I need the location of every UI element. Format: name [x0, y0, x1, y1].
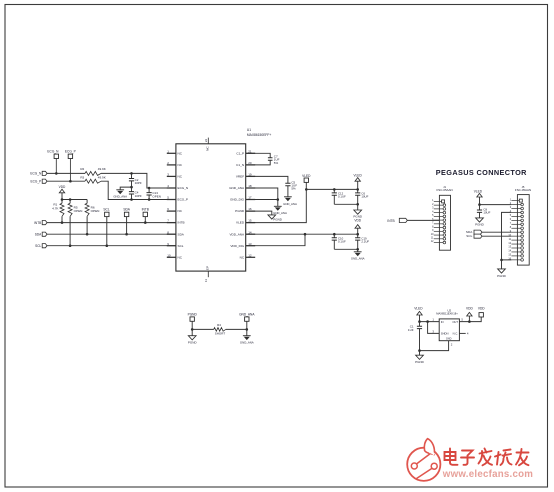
svg-text:PGND: PGND — [235, 209, 245, 213]
svg-text:GND_ANA: GND_ANA — [240, 340, 254, 344]
resistor R2 49.9K — [80, 167, 106, 175]
wire INTB — [47, 222, 176, 224]
node SCL test point — [103, 208, 109, 247]
title PEGASUS CONNECTOR — [436, 168, 527, 177]
svg-text:ECG_N: ECG_N — [30, 172, 42, 176]
svg-text:GND_ANA: GND_ANA — [113, 195, 127, 199]
node VDD test point — [478, 306, 485, 317]
svg-text:10UF: 10UF — [483, 210, 490, 214]
svg-text:VDD: VDD — [354, 219, 361, 223]
port INTB to J1 — [387, 218, 407, 223]
node GND_ANA test point — [239, 312, 255, 330]
svg-text:VLED: VLED — [474, 189, 483, 193]
svg-text:MAX8511EXK18+: MAX8511EXK18+ — [436, 312, 458, 316]
node ECG_P test point — [65, 150, 76, 183]
svg-text:PGND: PGND — [475, 222, 485, 226]
svg-text:INTB: INTB — [34, 221, 41, 225]
wire GND_ANA pin 18 to GND_DIG pin 17 — [246, 188, 279, 201]
wire U2 GND pin 2 — [418, 341, 453, 352]
svg-text:4.7K: 4.7K — [52, 207, 59, 211]
power VDD arrow at U2 — [466, 306, 473, 321]
wire ECG_P — [47, 180, 85, 182]
svg-text:VDD: VDD — [466, 306, 473, 310]
wire SDA — [47, 233, 176, 235]
svg-text:GND_ANA: GND_ANA — [351, 257, 365, 261]
svg-text:SCL: SCL — [466, 234, 472, 238]
svg-text:GND_ANA: GND_ANA — [273, 211, 287, 215]
svg-text:NC: NC — [178, 209, 183, 213]
port ECG_N — [30, 171, 47, 175]
resistor R3 49.9K — [80, 175, 106, 183]
svg-text:R3: R3 — [80, 175, 84, 179]
svg-text:10PF: 10PF — [135, 194, 142, 198]
connector J5 FSC-05AAN — [508, 185, 531, 265]
wire VLED pin 15 — [246, 182, 308, 222]
svg-text:49.9K: 49.9K — [98, 167, 107, 171]
wire VLED to U2 IN pin 1 — [420, 318, 440, 323]
svg-text:NC: NC — [205, 146, 209, 151]
svg-text:SCL: SCL — [103, 208, 109, 212]
svg-text:OUT: OUT — [452, 320, 458, 324]
svg-text:5%: 5% — [291, 187, 296, 191]
node ECG_N test point — [47, 150, 59, 175]
node PGND test point — [188, 312, 198, 330]
svg-text:INTB: INTB — [178, 221, 185, 225]
ground PGND at tie — [188, 329, 198, 344]
svg-text:OPEN: OPEN — [74, 209, 83, 213]
svg-text:SDA: SDA — [35, 232, 42, 236]
svg-text:FSC-05AAN: FSC-05AAN — [437, 188, 453, 192]
connector J1 FSC-05AAN — [431, 185, 453, 250]
wire INTB to J1 pin 6 — [407, 219, 439, 221]
svg-text:MAX86150EFF+: MAX86150EFF+ — [247, 133, 272, 137]
power VDD arrow — [354, 219, 361, 235]
svg-text:NC: NC — [178, 175, 183, 179]
port SDA to J5 — [466, 230, 482, 234]
svg-text:SHORT: SHORT — [215, 331, 226, 335]
svg-text:VDD_DIG: VDD_DIG — [230, 244, 244, 248]
svg-text:VLED: VLED — [302, 174, 311, 178]
U1 bottom pin 11 EP — [204, 266, 209, 282]
wire SCL to J5 pin 10 — [482, 235, 511, 237]
svg-text:ECG_P: ECG_P — [30, 179, 41, 183]
svg-text:ECG_P: ECG_P — [178, 198, 189, 202]
svg-text:10: 10 — [167, 253, 171, 257]
port SDA — [35, 232, 47, 236]
svg-text:5%: 5% — [274, 161, 279, 165]
svg-text:GND: GND — [446, 338, 452, 341]
svg-text:18: 18 — [248, 184, 252, 188]
svg-text:22: 22 — [204, 139, 208, 143]
svg-text:16: 16 — [248, 207, 252, 211]
svg-text:SDA: SDA — [123, 208, 130, 212]
svg-text:IN: IN — [441, 320, 444, 324]
ground PGND at U2 — [415, 351, 425, 365]
svg-text:INTB: INTB — [142, 208, 149, 212]
svg-text:PGND: PGND — [273, 218, 283, 222]
resistor R5 OPEN — [68, 200, 82, 248]
ground GND_ANA at C5 — [283, 197, 297, 206]
svg-text:VLED: VLED — [236, 221, 245, 225]
svg-text:PGND: PGND — [188, 312, 198, 316]
capacitor C4 10PF — [129, 187, 142, 199]
power VLED arrow at U2 — [414, 306, 423, 323]
power VLED arrow — [354, 173, 363, 189]
power VDD pullup rail — [59, 185, 87, 201]
svg-text:10UF: 10UF — [361, 195, 368, 199]
ground GND_ANA at pin 17 — [273, 200, 287, 216]
port SCL to J5 — [466, 234, 482, 238]
wire ECG_N — [47, 172, 85, 174]
U1 top pin 22 NC — [204, 138, 209, 151]
watermark url — [442, 469, 533, 480]
svg-text:www.elecfans.com: www.elecfans.com — [442, 469, 533, 480]
wire VLED to J5 pin 2 — [480, 204, 512, 206]
svg-text:SCL: SCL — [178, 244, 184, 248]
svg-text:1UF: 1UF — [408, 328, 414, 332]
ground GND_ANA at C2/C4 — [113, 187, 131, 199]
U1 left pins 1-10 — [167, 149, 188, 259]
svg-text:PGND: PGND — [415, 360, 425, 364]
svg-text:11: 11 — [204, 279, 208, 282]
svg-text:10PF: 10PF — [135, 181, 142, 185]
ground PGND at C8 — [475, 218, 485, 227]
ground GND_ANA at VDD caps — [334, 248, 364, 261]
svg-text:0.1UF: 0.1UF — [338, 195, 346, 199]
svg-text:GND_ANA: GND_ANA — [283, 202, 297, 206]
svg-text:PGND: PGND — [188, 340, 198, 344]
svg-text:FSC-05AAN: FSC-05AAN — [515, 188, 531, 192]
svg-text:OPEN: OPEN — [91, 209, 100, 213]
capacitor C7 1UF 5% — [246, 153, 280, 165]
capacitor C1 1UF — [408, 322, 422, 351]
svg-text:SCL: SCL — [35, 244, 41, 248]
ground PGND at pin 16 — [246, 211, 283, 222]
svg-text:N.C.: N.C. — [453, 332, 459, 336]
resistor R1 4.7K — [52, 200, 64, 224]
svg-text:PGND: PGND — [497, 274, 507, 278]
port ECG_P — [30, 179, 47, 183]
node INTB test point — [142, 208, 149, 224]
svg-text:C1_N: C1_N — [236, 163, 244, 167]
pin 4 N.C. stub — [459, 331, 469, 335]
port SCL — [35, 244, 47, 248]
wire ECG_P to pin 5 — [101, 181, 176, 201]
capacitor C6 10UF — [355, 189, 369, 204]
svg-text:SDA: SDA — [178, 232, 185, 236]
svg-text:PEGASUS CONNECTOR: PEGASUS CONNECTOR — [436, 168, 527, 177]
node VLED test point — [302, 174, 311, 183]
svg-text:20: 20 — [248, 161, 252, 165]
wire VLED rail — [306, 188, 359, 191]
ground GND_ANA at tie — [240, 329, 254, 344]
wire SDA to J5 pin 9 — [482, 231, 511, 233]
svg-text:R4: R4 — [217, 323, 221, 327]
watermark chinese text — [445, 449, 529, 466]
ground PGND at J5 — [497, 260, 507, 278]
watermark logo circle — [407, 439, 440, 481]
svg-text:0.1UF: 0.1UF — [338, 239, 346, 243]
svg-text:NC: NC — [178, 151, 183, 155]
wire VDD rail pins 14 13 — [246, 233, 359, 246]
svg-text:INTB: INTB — [387, 219, 394, 223]
svg-text:NC: NC — [178, 163, 183, 167]
svg-text:17: 17 — [248, 196, 252, 200]
wire SCL — [47, 245, 176, 247]
svg-text:R2: R2 — [80, 167, 84, 171]
svg-text:ECG_N: ECG_N — [178, 186, 189, 190]
svg-text:EP: EP — [205, 266, 209, 270]
svg-text:OPEN: OPEN — [152, 194, 161, 198]
capacitor C5 1UF 5% on VREF — [246, 176, 298, 196]
svg-text:NC: NC — [178, 255, 183, 259]
svg-text:13: 13 — [248, 242, 252, 246]
svg-text:U1: U1 — [247, 128, 251, 132]
svg-text:ECG_P: ECG_P — [65, 150, 76, 154]
svg-text:NC: NC — [240, 255, 245, 259]
ground PGND at VLED caps — [334, 203, 363, 219]
capacitor C2 10PF — [129, 173, 142, 188]
svg-text:GND_ANA: GND_ANA — [239, 312, 255, 316]
capacitor C13 OPEN — [147, 188, 161, 200]
svg-text:19: 19 — [248, 173, 252, 177]
capacitor C8 10UF — [477, 205, 491, 218]
svg-text:GND_DIG: GND_DIG — [230, 198, 245, 202]
port INTB — [34, 221, 47, 225]
U1 right pins 21-12 — [229, 149, 255, 259]
svg-text:VLED: VLED — [354, 173, 363, 177]
svg-text:GND_ANA: GND_ANA — [229, 186, 245, 190]
wire SHDN pin 3 — [428, 322, 440, 334]
resistor R4 SHORT — [192, 323, 247, 335]
wire ECG_N to pin 4 — [101, 172, 176, 189]
svg-text:12: 12 — [248, 253, 252, 257]
resistor R6 OPEN — [85, 200, 99, 236]
regulator U2 MAX8511EXK18+ — [436, 309, 459, 341]
svg-text:VDD_ANA: VDD_ANA — [229, 232, 245, 236]
capacitor C12 0.1UF — [332, 189, 346, 204]
capacitor C19 2.2UF — [355, 234, 369, 249]
wire PGND J5 pins 4 and 16 — [500, 212, 511, 261]
svg-text:ECG_N: ECG_N — [47, 150, 59, 154]
svg-text:49.9K: 49.9K — [98, 175, 107, 179]
svg-text:15: 15 — [248, 219, 252, 223]
svg-text:VLED: VLED — [414, 306, 423, 310]
svg-text:SHDN: SHDN — [441, 332, 449, 336]
svg-text:VDD: VDD — [478, 306, 485, 310]
svg-text:14: 14 — [248, 230, 252, 234]
wire U2 OUT pin 5 to VDD — [459, 317, 481, 323]
op-amp U1 MAX86150EFF+ body — [176, 128, 272, 271]
svg-text:VREF: VREF — [236, 175, 244, 179]
node SDA test point — [123, 208, 130, 236]
capacitor C10 0.1UF — [332, 234, 346, 249]
svg-text:C1_P: C1_P — [236, 151, 244, 155]
power VLED arrow at J5 — [474, 189, 483, 206]
svg-text:21: 21 — [248, 149, 252, 153]
svg-text:2.2UF: 2.2UF — [361, 239, 369, 243]
svg-text:VDD: VDD — [59, 185, 66, 189]
